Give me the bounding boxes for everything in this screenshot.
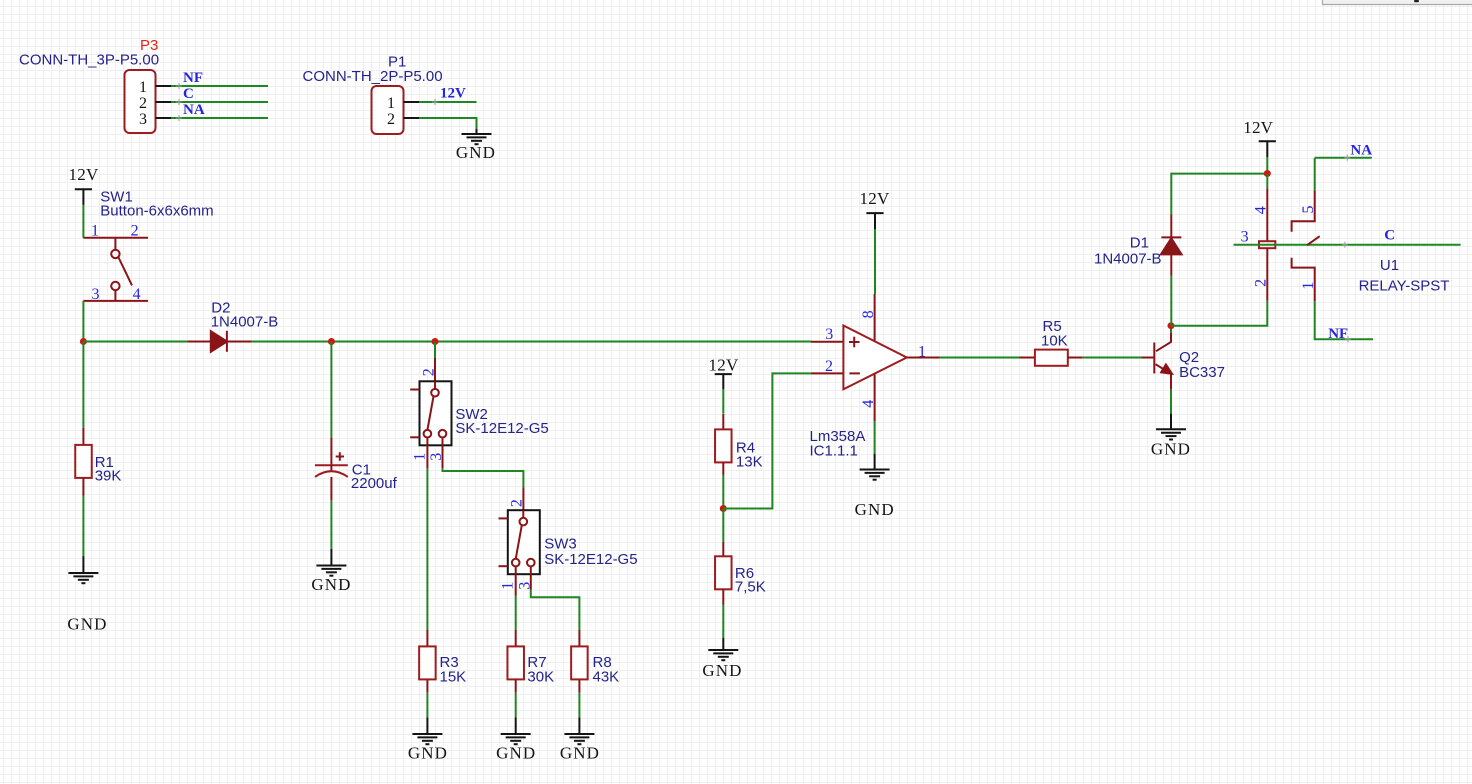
wire node D to R6 xyxy=(722,509,724,543)
capacitor C1 bottom plate arc xyxy=(315,471,348,477)
svg-text:1: 1 xyxy=(1300,282,1317,290)
connector P3 pin numbers xyxy=(139,79,147,128)
connector P1 designator xyxy=(388,54,406,71)
wire D2 to op-amp pin3 xyxy=(252,341,812,343)
svg-text:12V: 12V xyxy=(440,86,466,102)
relay U1 pin2 lead xyxy=(1266,248,1268,301)
switch SW1 body xyxy=(83,238,148,301)
svg-text:1: 1 xyxy=(387,95,395,112)
diode D2 designator xyxy=(211,300,230,317)
switch SW3 pin1 lead xyxy=(515,574,517,595)
net label NF xyxy=(1328,326,1348,342)
ground stem R1 xyxy=(82,556,84,573)
switch SW2 pin3 lead xyxy=(442,445,444,468)
svg-text:GND: GND xyxy=(855,500,895,519)
svg-text:3: 3 xyxy=(825,326,833,343)
ground symbol P1 xyxy=(462,134,492,144)
wire C1 to ground xyxy=(330,501,332,549)
wire net 12V from P1.1 xyxy=(419,99,477,105)
ground label GND R1 xyxy=(67,615,107,634)
svg-text:GND: GND xyxy=(311,575,351,594)
svg-text:D1: D1 xyxy=(1130,235,1149,252)
ground symbol R8 xyxy=(564,734,594,744)
wire NA down to relay pin5 xyxy=(1314,158,1316,191)
wire node A down to R1 xyxy=(82,342,84,428)
svg-text:5: 5 xyxy=(1300,206,1317,214)
ground symbol R6 xyxy=(708,650,738,660)
svg-text:3: 3 xyxy=(1241,228,1249,245)
svg-text:2: 2 xyxy=(131,222,139,239)
wire 12V to op-amp pin8 xyxy=(874,229,876,294)
resistor R1 designator xyxy=(95,454,114,471)
net label NF xyxy=(183,70,203,86)
op-amp pin number 1 xyxy=(918,343,926,360)
resistor R5 designator xyxy=(1043,318,1062,335)
svg-text:30K: 30K xyxy=(527,669,554,686)
switch SW2 pin numbers 1 3 xyxy=(412,453,446,461)
svg-text:1: 1 xyxy=(412,453,429,461)
svg-text:7,5K: 7,5K xyxy=(735,579,766,596)
ground label GND Q2 xyxy=(1151,440,1191,459)
switch SW3 pin numbers 1 3 xyxy=(500,582,534,590)
ground stem R6 xyxy=(722,638,724,650)
wire SW3 pin1 down to R7 xyxy=(515,596,517,630)
svg-text:1: 1 xyxy=(500,582,517,590)
ground symbol C1 xyxy=(316,566,346,576)
wire node E up to D1 anode xyxy=(1170,276,1172,326)
connector P3 value xyxy=(19,52,159,69)
switch SW2 body xyxy=(410,381,451,445)
wire SW1 pin3 down to main node xyxy=(82,301,84,342)
svg-text:CONN-TH_3P-P5.00: CONN-TH_3P-P5.00 xyxy=(19,52,159,69)
resistor R6 top pin xyxy=(722,542,724,556)
svg-text:Button-6x6x6mm: Button-6x6x6mm xyxy=(100,203,213,220)
wire R7 to ground xyxy=(515,693,517,718)
resistor R6 value xyxy=(735,579,766,596)
svg-text:NF: NF xyxy=(183,70,203,86)
op-amp pin number 4 xyxy=(860,400,877,408)
switch SW3 designator xyxy=(544,536,577,553)
wire R1 to ground xyxy=(82,496,84,557)
svg-text:4: 4 xyxy=(133,286,141,303)
wire node B down to C1 xyxy=(330,342,332,438)
capacitor C1 top plate xyxy=(315,464,348,466)
resistor R6 bottom pin xyxy=(722,589,724,604)
svg-text:12V: 12V xyxy=(709,356,739,375)
transistor Q2 value xyxy=(1179,364,1225,381)
svg-text:BC337: BC337 xyxy=(1179,364,1225,381)
net label NA xyxy=(183,102,205,118)
svg-text:2: 2 xyxy=(508,499,525,507)
junction node A at SW1/R1 xyxy=(80,338,87,345)
ground symbol R7 xyxy=(501,734,531,744)
wire SW2 pin1 down to R3 xyxy=(426,468,428,629)
svg-text:3: 3 xyxy=(139,111,147,128)
relay U1 pin1 lead xyxy=(1292,258,1315,302)
svg-text:NA: NA xyxy=(1350,143,1372,159)
resistor R3 body xyxy=(419,646,436,679)
resistor R6 designator xyxy=(735,565,754,582)
svg-text:13K: 13K xyxy=(736,453,763,470)
resistor R3 value xyxy=(440,669,467,686)
svg-text:2: 2 xyxy=(825,358,833,375)
svg-text:GND: GND xyxy=(408,744,448,763)
wire net C from P3.2 xyxy=(171,99,268,105)
svg-text:2200uf: 2200uf xyxy=(351,475,398,492)
resistor R8 designator xyxy=(593,654,612,671)
switch SW1 pin numbers 1 2 xyxy=(91,222,139,239)
svg-text:15K: 15K xyxy=(440,669,467,686)
ground label GND R6 xyxy=(702,661,742,680)
ground stem Q2 xyxy=(1170,414,1172,429)
svg-text:RELAY-SPST: RELAY-SPST xyxy=(1359,278,1450,295)
resistor R6 body xyxy=(715,556,732,589)
resistor R8 body xyxy=(571,646,588,679)
switch SW1 designator xyxy=(100,188,133,205)
wire 12V to node F xyxy=(1266,157,1268,174)
wire relay pin1 to NF xyxy=(1315,301,1373,342)
svg-text:2: 2 xyxy=(421,368,438,376)
relay U1 pin5 lead xyxy=(1292,190,1315,231)
op-amp pin 4 lead xyxy=(874,374,876,421)
resistor R4 bottom pin xyxy=(722,462,724,475)
op-amp pin 3 lead xyxy=(811,341,844,343)
wire op-amp pin4 to ground xyxy=(874,421,876,454)
wire node C down to SW2 pin2 xyxy=(434,342,436,359)
wire from P1.2 to ground xyxy=(419,118,477,129)
resistor R1 value xyxy=(95,467,122,484)
connector P1 body xyxy=(372,86,404,134)
wire node E to relay pin2 corner xyxy=(1171,301,1267,326)
resistor R1 body xyxy=(75,445,92,478)
resistor R4 top pin xyxy=(722,414,724,429)
resistor R8 bottom pin xyxy=(578,679,580,692)
op-amp pin number 8 xyxy=(860,310,877,318)
switch SW3 pin3 lead xyxy=(530,574,532,589)
wire D1 cathode to node F xyxy=(1171,174,1267,215)
svg-text:12V: 12V xyxy=(69,165,99,184)
svg-text:GND: GND xyxy=(67,615,107,634)
capacitor C1 top pin xyxy=(330,437,332,465)
svg-text:12V: 12V xyxy=(1243,118,1273,137)
switch SW3 pin number 2 xyxy=(508,499,525,507)
wire net C relay pin3 to right edge xyxy=(1234,242,1461,248)
connector P3 pin 3 stub xyxy=(156,117,172,119)
resistor R5 right pin xyxy=(1068,357,1083,359)
power flag 12V at op-amp bar xyxy=(866,213,883,229)
svg-text:CONN-TH_2P-P5.00: CONN-TH_2P-P5.00 xyxy=(303,68,443,85)
junction node B at C1 xyxy=(328,338,335,345)
diode D1 value xyxy=(1094,251,1162,268)
diode D1 designator xyxy=(1130,235,1149,252)
ground stem P1 xyxy=(476,129,478,134)
op-amp plus input mark xyxy=(849,337,860,348)
wire Q2 collector to node E xyxy=(1170,326,1172,333)
connector P1 pin 2 stub xyxy=(404,117,420,119)
relay U1 pin number 5 xyxy=(1300,206,1317,214)
svg-text:GND: GND xyxy=(456,143,496,162)
ui panel fragment top right xyxy=(1323,0,1472,5)
wire SW3 pin3 to R8 xyxy=(531,590,580,630)
ground label GND op-amp xyxy=(855,500,895,519)
relay U1 contact blade xyxy=(1307,236,1320,245)
svg-text:NF: NF xyxy=(1328,326,1348,342)
net label C xyxy=(183,86,194,102)
svg-text:GND: GND xyxy=(560,744,600,763)
svg-text:1: 1 xyxy=(91,222,99,239)
relay U1 coil box xyxy=(1259,241,1275,248)
switch SW1 value xyxy=(100,203,213,220)
transistor Q2 base bar xyxy=(1153,343,1155,374)
op-amp minus input mark xyxy=(849,372,860,374)
svg-text:12V: 12V xyxy=(860,189,890,208)
resistor R3 designator xyxy=(440,654,459,671)
diode D1 body xyxy=(1161,237,1182,254)
ground stem R3 xyxy=(426,718,428,735)
diode D2 body xyxy=(211,331,227,352)
power flag 12V at R4 bar xyxy=(715,374,732,389)
svg-text:C: C xyxy=(1384,228,1395,244)
relay U1 pin number 1 xyxy=(1300,282,1317,290)
svg-text:43K: 43K xyxy=(593,669,620,686)
connector P1 pin 1 stub xyxy=(404,101,420,103)
junction node C at SW2 xyxy=(432,338,439,345)
connector P1 pin numbers xyxy=(387,95,395,128)
relay U1 pin number 2 xyxy=(1253,279,1270,287)
switch SW3 pin2 lead xyxy=(522,487,524,510)
resistor R3 bottom pin xyxy=(426,679,428,692)
ground label GND R7 xyxy=(496,744,536,763)
transistor Q2 emitter xyxy=(1156,364,1173,390)
resistor R1 top pin xyxy=(82,428,84,445)
wire node D to op-amp pin2 xyxy=(723,373,811,508)
connector P1 value xyxy=(303,68,443,85)
transistor Q2 collector xyxy=(1156,333,1171,351)
switch SW2 pin number 2 xyxy=(421,368,438,376)
svg-text:SW3: SW3 xyxy=(544,536,577,553)
wire NA net xyxy=(1315,155,1372,161)
ground symbol op-amp xyxy=(860,470,890,480)
svg-text:IC1.1.1: IC1.1.1 xyxy=(810,443,858,460)
svg-text:3: 3 xyxy=(517,582,534,590)
power flag 12V at relay label xyxy=(1243,118,1273,137)
svg-text:2: 2 xyxy=(139,95,147,112)
switch SW2 value xyxy=(455,420,548,437)
svg-text:10K: 10K xyxy=(1041,333,1068,350)
resistor R4 body xyxy=(715,429,732,462)
diode D1 cathode pin xyxy=(1170,214,1172,237)
relay U1 designator xyxy=(1380,257,1399,274)
diode D2 cathode pin xyxy=(227,341,252,343)
wire R3 to ground xyxy=(426,693,428,718)
svg-text:1: 1 xyxy=(139,79,147,96)
svg-text:GND: GND xyxy=(1151,440,1191,459)
ground stem R8 xyxy=(578,718,580,735)
switch SW3 body xyxy=(499,510,540,574)
net label NA xyxy=(1350,143,1372,159)
op-amp name IC1.1.1 xyxy=(810,443,858,460)
wire R4 to node D xyxy=(722,475,724,509)
connector P3 pin 2 stub xyxy=(156,101,172,103)
wire R6 to ground xyxy=(722,605,724,639)
power flag 12V at SW1 bar xyxy=(75,189,92,205)
switch SW1 pin numbers 3 4 xyxy=(92,286,141,303)
connector P3 body xyxy=(125,70,156,133)
svg-text:4: 4 xyxy=(860,400,877,408)
svg-text:U1: U1 xyxy=(1380,257,1399,274)
resistor R7 bottom pin xyxy=(515,679,517,692)
op-amp pin number 3 xyxy=(825,326,833,343)
junction node D divider xyxy=(720,505,727,512)
diode D2 value xyxy=(211,313,279,330)
resistor R5 value xyxy=(1041,333,1068,350)
capacitor C1 designator xyxy=(352,462,371,479)
resistor R4 designator xyxy=(736,440,755,457)
resistor R4 value xyxy=(736,453,763,470)
ground label GND P1 xyxy=(456,143,496,162)
ground symbol Q2 xyxy=(1156,429,1186,439)
svg-text:C: C xyxy=(183,86,194,102)
power flag 12V at relay bar xyxy=(1259,141,1276,157)
power flag 12V at op-amp label xyxy=(860,189,890,208)
svg-text:SK-12E12-G5: SK-12E12-G5 xyxy=(544,551,637,568)
capacitor C1 value xyxy=(351,475,398,492)
svg-text:3: 3 xyxy=(428,453,445,461)
wire R5 to Q2 base xyxy=(1083,357,1142,359)
ground stem C1 xyxy=(330,549,332,566)
wire net NF from P3.1 xyxy=(171,83,268,89)
op-amp pin 2 lead xyxy=(811,372,844,374)
svg-text:3: 3 xyxy=(92,286,100,303)
ground stem R7 xyxy=(515,718,517,735)
switch SW3 value xyxy=(544,551,637,568)
resistor R5 left pin xyxy=(1020,357,1035,359)
diode D1 anode pin xyxy=(1170,254,1172,275)
resistor R7 body xyxy=(507,646,524,679)
op-amp designator Lm358A xyxy=(810,428,866,445)
ground stem op-amp xyxy=(874,454,876,470)
net label C xyxy=(1384,228,1395,244)
resistor R7 designator xyxy=(527,654,546,671)
diode D2 anode pin xyxy=(187,341,210,343)
svg-text:39K: 39K xyxy=(95,467,122,484)
svg-text:1N4007-B: 1N4007-B xyxy=(1094,251,1162,268)
resistor R1 bottom pin xyxy=(82,478,84,496)
svg-text:GND: GND xyxy=(702,661,742,680)
op-amp pin number 2 xyxy=(825,358,833,375)
power flag 12V at SW1 label xyxy=(69,165,99,184)
ground symbol R3 xyxy=(412,734,442,744)
wire net NA from P3.3 xyxy=(171,115,268,121)
connector P3 pin 1 stub xyxy=(156,85,172,87)
resistor R8 value xyxy=(593,669,620,686)
op-amp IC1 body triangle xyxy=(843,326,906,390)
op-amp pin 8 lead xyxy=(874,294,876,342)
resistor R5 body xyxy=(1035,350,1068,366)
ground label GND R8 xyxy=(560,744,600,763)
switch SW2 pin1 lead xyxy=(426,445,428,468)
svg-text:SK-12E12-G5: SK-12E12-G5 xyxy=(455,420,548,437)
wire node F to relay pin4 xyxy=(1266,174,1268,189)
connector P3 designator xyxy=(140,37,158,54)
wire 12V to R4 xyxy=(722,389,724,414)
transistor Q2 designator xyxy=(1179,349,1199,366)
ground label GND R3 xyxy=(408,744,448,763)
wire R8 to ground xyxy=(578,693,580,718)
ground label GND C1 xyxy=(311,575,351,594)
junction node F at relay coil xyxy=(1264,170,1271,177)
wire Q2 emitter to ground xyxy=(1170,390,1172,414)
wire SW2 pin3 to SW3 pin2 xyxy=(443,468,524,487)
capacitor C1 inner pin xyxy=(330,465,332,501)
wire main node A to D2 anode xyxy=(83,341,187,343)
net label 12V at P1 xyxy=(440,86,466,102)
ground symbol R1 xyxy=(68,573,98,583)
svg-text:GND: GND xyxy=(496,744,536,763)
svg-text:8: 8 xyxy=(860,310,877,318)
svg-text:4: 4 xyxy=(1253,206,1270,214)
svg-text:NA: NA xyxy=(183,102,205,118)
relay U1 pin number 4 xyxy=(1253,206,1270,214)
resistor R3 top pin xyxy=(426,630,428,647)
resistor R8 top pin xyxy=(578,630,580,647)
resistor R7 top pin xyxy=(515,630,517,647)
relay U1 pin number 3 xyxy=(1241,228,1249,245)
transistor Q2 base pin xyxy=(1141,357,1154,359)
relay U1 pin4 lead xyxy=(1266,188,1268,241)
resistor R7 value xyxy=(527,669,554,686)
switch SW2 pin2 lead xyxy=(434,358,436,381)
junction node E at Q2 collector xyxy=(1168,322,1175,329)
wire op-amp pin1 to R5 xyxy=(940,357,1020,359)
wire 12V to SW1 pin1 xyxy=(82,205,84,238)
svg-text:2: 2 xyxy=(387,111,395,128)
op-amp pin 1 lead xyxy=(907,357,940,359)
power flag 12V at R4 label xyxy=(709,356,739,375)
svg-text:2: 2 xyxy=(1253,279,1270,287)
capacitor C1 plus sign xyxy=(336,452,344,460)
relay U1 value xyxy=(1359,278,1450,295)
svg-text:1N4007-B: 1N4007-B xyxy=(211,313,279,330)
switch SW2 designator xyxy=(455,406,488,423)
